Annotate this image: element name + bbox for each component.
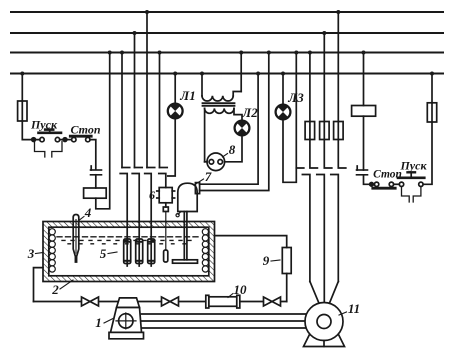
connector jog g	[331, 140, 346, 282]
junction dot L3-coil K2 wire	[362, 51, 366, 55]
wire contact to coil	[95, 175, 97, 188]
float switch 6 body	[157, 188, 175, 203]
tank 2 hatched walls	[43, 222, 215, 282]
leader line 10	[228, 294, 233, 298]
svg-text:8: 8	[229, 142, 236, 157]
wire electrode phase A	[121, 53, 123, 168]
pump 1 body	[109, 298, 144, 339]
pump 1 impeller	[116, 313, 136, 329]
pipe main line	[34, 301, 287, 303]
leader line 11	[339, 312, 347, 315]
float weight in tank	[164, 250, 168, 262]
wire level sensor feed	[159, 53, 161, 168]
junction dot L3-motor wire	[267, 51, 271, 55]
svg-text:6: 6	[149, 188, 155, 202]
valve V3	[264, 297, 281, 306]
mixer motor 7	[178, 183, 200, 212]
connector jog d upper	[160, 167, 168, 169]
junction dot	[370, 183, 374, 187]
wire resistor 9 from tank	[215, 236, 287, 248]
auxiliary contact K2	[357, 166, 368, 175]
svg-text:Л1: Л1	[179, 88, 195, 103]
float switch stem	[163, 203, 168, 250]
leader line 1	[104, 319, 113, 324]
leader line 4	[79, 217, 84, 221]
transformer core	[203, 103, 235, 106]
junction dot L3-neutral wire	[294, 51, 298, 55]
junction dot L1-fuse wire	[336, 10, 340, 14]
junction dot L4-transformer wire	[200, 72, 204, 76]
wire contact to stop button right	[364, 175, 375, 185]
wire converge left into pump motor	[310, 282, 319, 304]
liquid level dashes	[57, 237, 200, 244]
resistor 9	[282, 248, 291, 274]
leader line 9	[271, 260, 280, 261]
bus line L2	[11, 32, 443, 34]
heater coil right	[202, 229, 208, 272]
pushbutton Стоп left	[70, 136, 91, 142]
wire lamp Л1 feed	[174, 74, 176, 105]
junction dot L1-lamp wire	[145, 10, 149, 14]
valve V1	[82, 297, 99, 306]
wire motor feed upper	[200, 74, 259, 185]
transformer T primary	[202, 53, 241, 102]
junction dot L3-sensor wire	[158, 51, 162, 55]
motor drain handle	[178, 212, 181, 215]
leader line 7	[197, 179, 204, 184]
connector jog c lower	[145, 174, 152, 240]
junction dot L4-lamp Л1 wire	[173, 72, 177, 76]
svg-text:Пуск: Пуск	[399, 159, 427, 173]
wire lamp Л1 lower	[168, 119, 175, 177]
junction dot	[63, 138, 67, 142]
connector jog f	[317, 140, 332, 303]
junction dot L4-control wire	[20, 72, 24, 76]
svg-text:Л2: Л2	[241, 105, 258, 120]
transformer T secondary	[205, 108, 242, 161]
pushbutton Пуск right	[398, 172, 424, 186]
svg-text:5: 5	[100, 246, 107, 261]
mechanical link under Пуск left	[35, 142, 45, 158]
connector jog a upper	[122, 167, 130, 169]
lamp Л2	[235, 121, 250, 136]
wire coil to bus L3	[96, 53, 110, 209]
connector jog d lower	[159, 174, 166, 188]
fuse F4	[334, 12, 344, 140]
wire motor feed lower	[200, 53, 269, 191]
bus line L3	[11, 52, 443, 54]
connector jog a lower	[120, 174, 127, 240]
connector jog c upper	[147, 167, 155, 169]
relay coil K1	[84, 188, 107, 198]
wire fuse F5 to bus L4	[431, 74, 433, 103]
electrode group 5	[124, 239, 155, 266]
relay coil K2	[352, 53, 376, 171]
pipe pump1 to pump11 upper	[142, 313, 307, 315]
wire Л3 lower jog	[283, 119, 296, 182]
lamp Л1	[168, 104, 183, 119]
svg-text:10: 10	[234, 282, 248, 297]
thermometer 4	[73, 215, 79, 263]
pipe shaft center line	[142, 320, 318, 322]
leader line 5	[108, 252, 117, 254]
svg-text:11: 11	[348, 301, 360, 316]
pipe tank outlet left	[34, 268, 44, 302]
pushbutton Пуск left	[39, 130, 72, 142]
leader line 8	[223, 154, 228, 158]
connector jog b upper	[135, 167, 143, 169]
fuse F3	[320, 33, 330, 140]
junction dot L3-electrode wire	[120, 51, 124, 55]
connector jog b lower	[132, 174, 139, 240]
svg-text:1: 1	[95, 315, 102, 330]
wire neutral drop	[296, 53, 304, 169]
pushbutton Стоп right	[373, 182, 395, 188]
lamp Л3	[276, 105, 291, 120]
svg-text:4: 4	[84, 205, 92, 220]
wire Л2 to socket	[225, 135, 242, 162]
wire left control drop	[21, 74, 23, 102]
mixer shaft	[184, 212, 187, 260]
pipe pump1 to pump11 lower	[142, 327, 307, 329]
wire converge right into pump motor	[329, 282, 338, 304]
junction dot L4-lamp Л3 wire	[281, 72, 285, 76]
svg-text:Стоп: Стоп	[70, 123, 100, 137]
wire Стоп to holding contact	[90, 140, 96, 169]
junction dot L3-fuse wire	[308, 51, 312, 55]
valve V2	[162, 297, 179, 306]
junction dot L2-fuse wire	[322, 31, 326, 35]
bus line L1	[11, 11, 443, 13]
wire electrode phase C	[146, 12, 148, 168]
connector jog e	[302, 140, 317, 282]
junction dot L3-transformer wire	[239, 51, 243, 55]
junction dot	[32, 138, 36, 142]
wire secondary to socket	[205, 161, 207, 163]
flow meter 10	[206, 295, 240, 308]
leader line 3	[36, 253, 44, 254]
svg-text:9: 9	[263, 253, 270, 268]
socket 8	[207, 153, 225, 171]
junction dot L2-electrode wire	[133, 31, 137, 35]
fuse F2	[305, 53, 315, 140]
mechanical link under Пуск right	[402, 187, 410, 203]
junction dot L4-fuse F5 wire	[430, 72, 434, 76]
wire electrode phase B	[134, 33, 136, 168]
fuse F1 left	[18, 101, 27, 121]
junction dot L3-coil return	[108, 51, 112, 55]
pump 11 housing	[305, 303, 343, 347]
leader line 2	[60, 280, 73, 289]
wire Пуск right to fuse	[423, 122, 432, 184]
fuse F5 right	[427, 103, 436, 122]
svg-text:3: 3	[27, 246, 35, 261]
junction dot L4-motor wire	[256, 72, 260, 76]
wire lamp Л3 feed	[282, 74, 284, 106]
svg-text:Пуск: Пуск	[30, 118, 58, 132]
wire resistor to pipe	[286, 274, 288, 302]
wire between right buttons	[394, 183, 400, 185]
auxiliary contact KM1	[91, 166, 102, 175]
svg-text:7: 7	[205, 169, 212, 184]
bus line L4	[11, 73, 443, 75]
heater coil left	[49, 229, 55, 272]
pump 11 base	[304, 335, 345, 347]
wire fuse to start button	[22, 121, 40, 140]
svg-text:2: 2	[51, 282, 59, 297]
mixer paddle	[173, 260, 198, 263]
